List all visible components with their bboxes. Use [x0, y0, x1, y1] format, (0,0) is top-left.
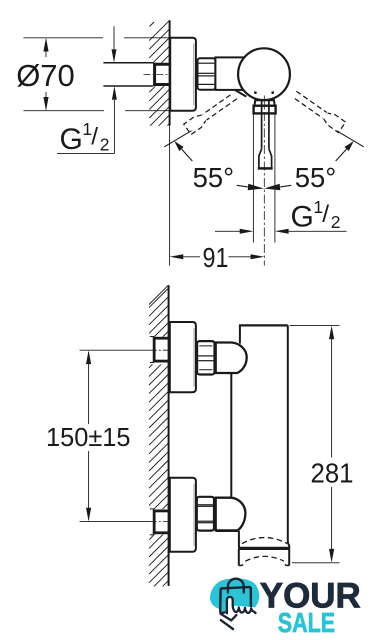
svg-text:281: 281: [311, 457, 354, 488]
hand palm edge: [220, 614, 236, 621]
wall face line (top view): [169, 20, 171, 125]
hex nut bottom (bottom view): [197, 497, 214, 531]
dimension Ø70 extension line bottom: [23, 110, 104, 112]
ghost lever rotated left 55deg (dashed): [184, 91, 239, 135]
svg-text:G: G: [60, 123, 83, 156]
dimension Ø70 line + arrows: [45, 40, 47, 58]
svg-text:2: 2: [331, 212, 341, 232]
svg-text:2: 2: [100, 134, 110, 154]
bag handle: [228, 579, 244, 593]
pipe centerline (top view): [144, 73, 175, 75]
wall face extension line down to 91 dimension: [169, 126, 171, 266]
svg-text:55°: 55°: [295, 162, 337, 193]
outlet neck left: [238, 531, 240, 548]
55deg bowtie arrows at lever: [248, 184, 264, 190]
shopping bag: [220, 587, 251, 613]
wall hatching (bottom view): [149, 285, 169, 617]
wall socket fitting (top view, thick): [153, 63, 170, 66]
bottom supply lobe: [216, 498, 246, 531]
lever collar: [255, 100, 275, 105]
lever centerline: [263, 96, 265, 266]
91 dimension: [170, 254, 184, 259]
svg-text:55°: 55°: [193, 162, 235, 193]
bottom socket (bottom view): [150, 508, 154, 510]
hex nut top (bottom view): [197, 341, 214, 374]
detail dots on valve body: [254, 91, 257, 94]
281 dimension: [290, 324, 340, 326]
55deg arc line right + leader arrow: [337, 131, 364, 147]
svg-text:Ø70: Ø70: [16, 58, 75, 93]
ghost lever rotated right 55deg (dashed): [291, 89, 346, 133]
55deg arc line left + leader arrow: [164, 131, 191, 147]
outlet thread dashed arc: [242, 538, 287, 544]
extension lines G1/2 right: [252, 115, 254, 243]
svg-text:/: /: [322, 201, 329, 228]
svg-text:/: /: [91, 123, 98, 150]
wall face line (bottom view): [168, 286, 170, 587]
supply pipe (top view): [103, 62, 153, 64]
svg-text:SALE: SALE: [278, 607, 336, 638]
wall hatching (top view): [149, 20, 169, 161]
hand white fill mask: [222, 597, 257, 620]
escutcheon (top view): [170, 38, 196, 111]
escutcheon top (bottom view): [170, 322, 196, 392]
escutcheon bottom (bottom view): [170, 478, 196, 552]
teal blob: [210, 578, 259, 612]
top supply lobe: [216, 343, 247, 374]
hatch stub top-left: [150, 22, 155, 27]
union body (top view): [235, 90, 246, 97]
G 1/2 leader (left) lower arrow line: [113, 100, 115, 154]
hand finger + knuckles stroke: [227, 597, 256, 613]
150+-15 dimension: [88, 352, 90, 424]
valve body circle (top view): [238, 48, 290, 100]
svg-text:G: G: [291, 201, 314, 234]
dimension Ø70 extension line top: [23, 37, 103, 39]
top socket (bottom view): [150, 336, 154, 338]
bottom socket centerline + 150 extension: [80, 521, 151, 523]
lever handle (solid, pointing down): [261, 100, 263, 149]
top socket centerline + 150 extension: [80, 349, 151, 351]
pipe ticks into escutcheon: [170, 62, 175, 64]
G 1/2 right dimension line: [215, 230, 240, 232]
hex nut (top view): [198, 58, 216, 89]
outlet union nut: [238, 547, 290, 550]
svg-text:150±15: 150±15: [46, 424, 131, 452]
body outline: [230, 372, 232, 499]
G 1/2 leader (left) upper arrow line: [113, 26, 115, 49]
svg-text:91: 91: [203, 242, 229, 273]
wrist stroke: [221, 620, 233, 629]
